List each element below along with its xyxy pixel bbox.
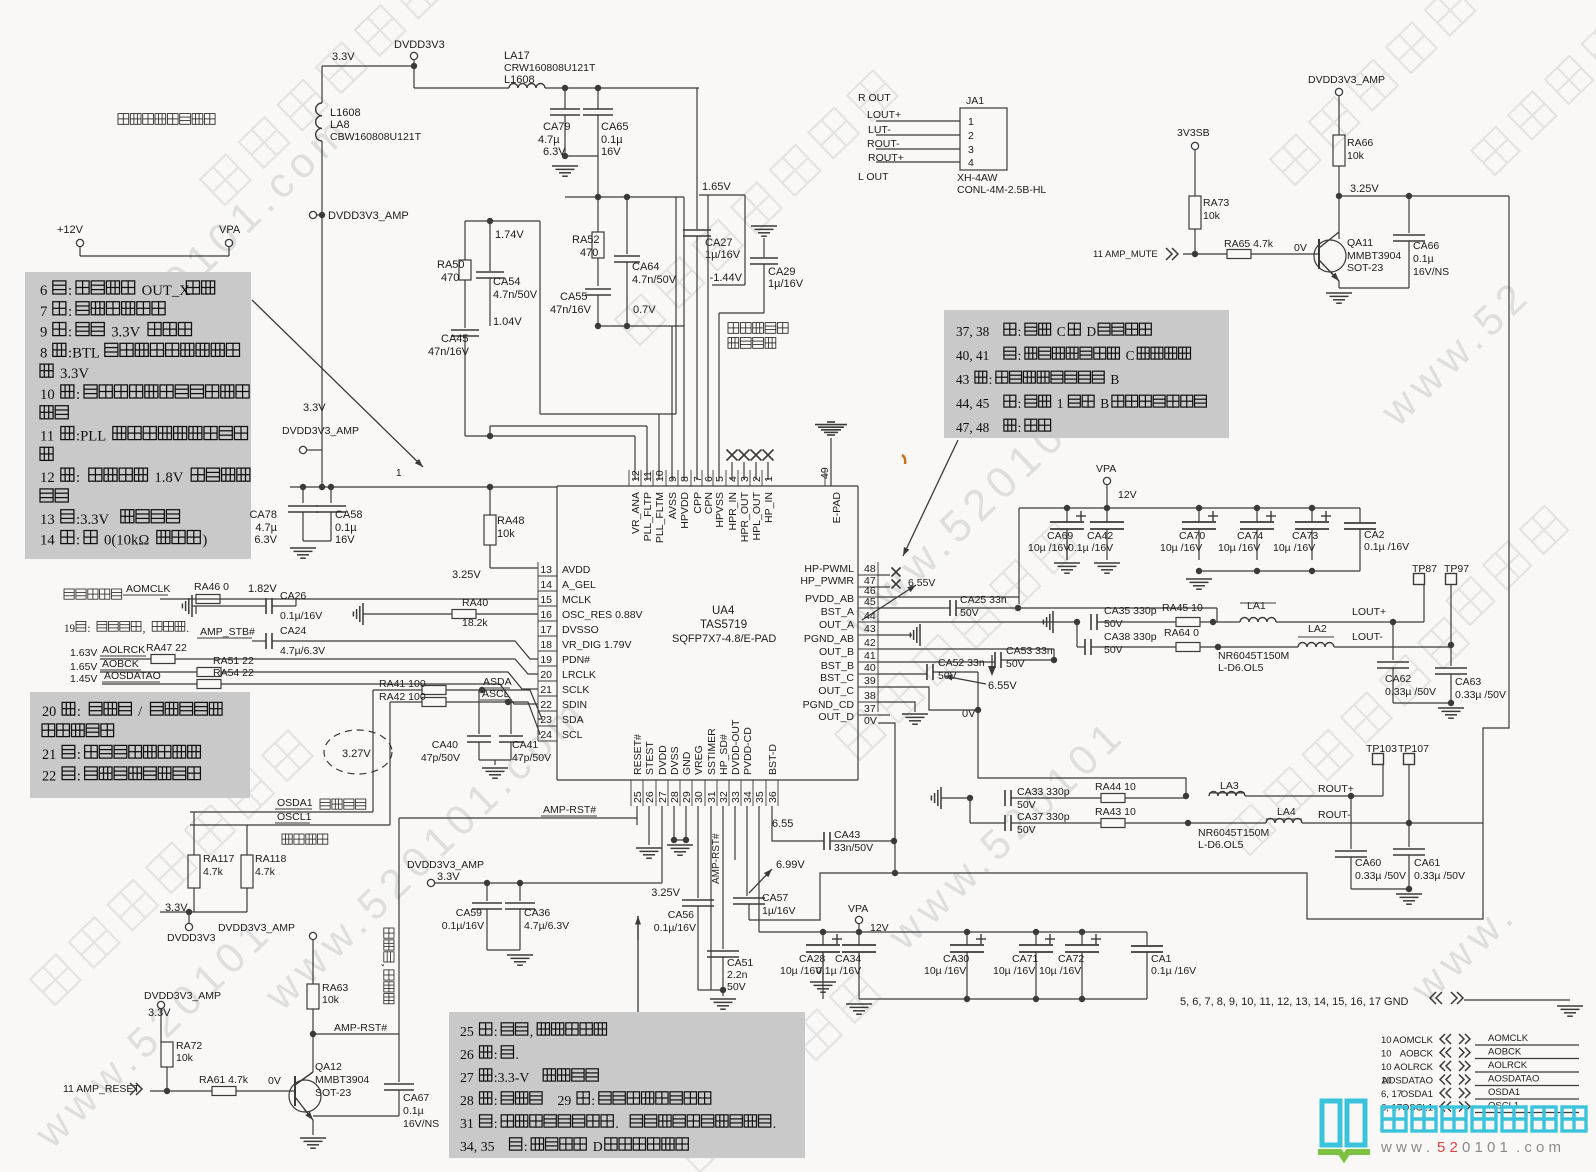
svg-text:AOBCK: AOBCK <box>1488 1047 1522 1058</box>
svg-text:10: 10 <box>654 470 666 482</box>
svg-text:31: 31 <box>706 791 718 803</box>
svg-text:CA78: CA78 <box>249 509 277 521</box>
svg-text:16V/NS: 16V/NS <box>403 1118 439 1130</box>
svg-text:27: 27 <box>657 791 669 803</box>
svg-text:DVDD: DVDD <box>657 745 669 775</box>
svg-text:RA52: RA52 <box>572 234 600 246</box>
svg-text:41: 41 <box>864 650 876 662</box>
svg-text:1: 1 <box>763 476 775 482</box>
svg-text:CA70: CA70 <box>1179 530 1205 542</box>
svg-text:6.99V: 6.99V <box>776 859 805 871</box>
svg-text:CA26: CA26 <box>280 590 306 602</box>
svg-text:1.63V: 1.63V <box>70 647 97 659</box>
svg-text:CBW160808U121T: CBW160808U121T <box>330 131 422 143</box>
svg-text:AVSS: AVSS <box>667 492 679 519</box>
svg-text:CA69: CA69 <box>1047 530 1073 542</box>
svg-text:10µ /16V: 10µ /16V <box>1218 542 1260 554</box>
svg-text:0V: 0V <box>864 715 877 727</box>
svg-text:ASDA: ASDA <box>483 676 512 688</box>
svg-text:13: 13 <box>40 512 55 528</box>
svg-text:4.7k: 4.7k <box>203 866 224 878</box>
svg-text:LRCLK: LRCLK <box>562 669 596 681</box>
svg-text:CA67: CA67 <box>403 1092 429 1104</box>
svg-text:6.3V: 6.3V <box>254 534 277 546</box>
svg-text:42: 42 <box>864 637 876 649</box>
svg-text:16V: 16V <box>601 146 621 158</box>
svg-text:AOSDATAO: AOSDATAO <box>104 670 161 682</box>
svg-text:6.55V: 6.55V <box>988 680 1017 692</box>
svg-text:0 1 0 1: 0 1 0 1 <box>1462 1139 1508 1156</box>
svg-text:CA45: CA45 <box>441 333 469 345</box>
svg-text:10: 10 <box>1381 1049 1392 1060</box>
svg-text:.: . <box>186 623 189 635</box>
svg-text:HPR_IN: HPR_IN <box>727 492 739 531</box>
svg-text:PLL_FLTM: PLL_FLTM <box>654 492 666 543</box>
svg-text:HP_IN: HP_IN <box>763 492 775 523</box>
svg-text:16: 16 <box>540 609 552 621</box>
svg-text:0.1µ /16V: 0.1µ /16V <box>1151 965 1196 977</box>
svg-text:ASCL: ASCL <box>482 688 510 700</box>
svg-text:TP87: TP87 <box>1412 563 1437 575</box>
svg-text:SQFP7X7-4.8/E-PAD: SQFP7X7-4.8/E-PAD <box>672 633 776 645</box>
svg-text:CA35 330p: CA35 330p <box>1104 605 1157 617</box>
svg-text:VR_DIG 1.79V: VR_DIG 1.79V <box>562 639 631 651</box>
svg-text:4.7µ: 4.7µ <box>538 134 560 146</box>
svg-text:LA8: LA8 <box>330 119 350 131</box>
svg-text:12: 12 <box>40 470 55 486</box>
svg-text:10µ /16V: 10µ /16V <box>1160 542 1202 554</box>
svg-text:0.1µ/16V: 0.1µ/16V <box>654 922 696 934</box>
svg-text:STEST: STEST <box>644 741 656 775</box>
svg-text:CA66: CA66 <box>1413 240 1439 252</box>
svg-text:B: B <box>1100 396 1109 411</box>
svg-text:DVDD3V3: DVDD3V3 <box>394 39 445 51</box>
svg-text:25: 25 <box>460 1024 474 1039</box>
svg-text:AMP-RST#: AMP-RST# <box>334 1022 387 1034</box>
svg-text:.: . <box>615 1116 618 1131</box>
svg-text::: : <box>77 704 81 720</box>
svg-text:36: 36 <box>767 791 779 803</box>
svg-text:CA56: CA56 <box>668 909 694 921</box>
svg-text::3.3V: :3.3V <box>76 512 109 528</box>
svg-text:VREG: VREG <box>693 745 705 775</box>
svg-text:50V: 50V <box>727 981 746 993</box>
svg-text:DVDD3V3_AMP: DVDD3V3_AMP <box>282 425 359 437</box>
svg-text:RA46 0: RA46 0 <box>194 581 229 593</box>
svg-text:3.3V: 3.3V <box>303 402 326 414</box>
svg-text:4.7n/50V: 4.7n/50V <box>493 289 538 301</box>
svg-text:31: 31 <box>460 1116 474 1131</box>
svg-text:LA4: LA4 <box>1277 806 1296 818</box>
svg-text:14: 14 <box>40 533 55 549</box>
svg-text:5 2: 5 2 <box>1437 1139 1458 1156</box>
svg-text:CA52 33n: CA52 33n <box>938 657 985 669</box>
svg-text:DVDD3V3: DVDD3V3 <box>167 932 216 944</box>
svg-text:3V3SB: 3V3SB <box>1177 127 1210 139</box>
svg-text:35: 35 <box>754 791 766 803</box>
svg-text:3: 3 <box>968 144 974 156</box>
svg-text:HPVSS: HPVSS <box>714 492 726 528</box>
svg-text:OUT_X: OUT_X <box>142 283 191 299</box>
svg-text:OUT_D: OUT_D <box>818 711 854 723</box>
svg-text:CA79: CA79 <box>543 121 571 133</box>
svg-text:13: 13 <box>540 564 552 576</box>
svg-text:CONL-4M-2.5B-HL: CONL-4M-2.5B-HL <box>957 184 1046 196</box>
svg-text:10µ /16V: 10µ /16V <box>1273 542 1315 554</box>
svg-text:CA58: CA58 <box>335 509 363 521</box>
svg-text:RA47 22: RA47 22 <box>146 642 187 654</box>
svg-text:3: 3 <box>739 476 751 482</box>
svg-text:10: 10 <box>1381 1035 1392 1046</box>
svg-text:47, 48: 47, 48 <box>956 420 990 435</box>
svg-text:5: 5 <box>714 476 726 482</box>
svg-text:CA34: CA34 <box>835 953 861 965</box>
svg-text:AOMCLK: AOMCLK <box>1488 1033 1529 1044</box>
svg-text::3.3-V: :3.3-V <box>494 1070 530 1085</box>
svg-text:6.55: 6.55 <box>772 818 793 830</box>
svg-text:CA25 33n: CA25 33n <box>960 594 1007 606</box>
svg-text:11: 11 <box>40 429 54 445</box>
svg-text:11: 11 <box>642 471 654 482</box>
svg-text:50V: 50V <box>1017 824 1036 836</box>
svg-text:MCLK: MCLK <box>562 594 591 606</box>
svg-text:3.25V: 3.25V <box>651 887 680 899</box>
svg-text:CA74: CA74 <box>1237 530 1263 542</box>
svg-text:32: 32 <box>718 791 730 803</box>
svg-text:47p/50V: 47p/50V <box>421 752 460 764</box>
svg-text:21: 21 <box>540 684 552 696</box>
svg-text:RA117: RA117 <box>203 853 234 865</box>
svg-text:0.7V: 0.7V <box>633 304 656 316</box>
svg-text:1.82V: 1.82V <box>248 583 277 595</box>
svg-text:43: 43 <box>864 623 876 635</box>
svg-text:VPA: VPA <box>219 224 241 236</box>
svg-text:RA65 4.7k: RA65 4.7k <box>1224 238 1274 250</box>
svg-text:0.1µ /16V: 0.1µ /16V <box>1364 541 1409 553</box>
svg-text:6.55V: 6.55V <box>908 577 935 589</box>
svg-text:10k: 10k <box>322 994 340 1006</box>
svg-text:12: 12 <box>630 470 642 482</box>
svg-text:39: 39 <box>864 675 876 687</box>
svg-text:44, 45: 44, 45 <box>956 396 990 411</box>
svg-text:4.7k: 4.7k <box>255 866 276 878</box>
svg-text:LA3: LA3 <box>1220 780 1239 792</box>
svg-text::: : <box>1018 324 1022 339</box>
svg-text::: : <box>87 623 90 635</box>
svg-text:L-D6.OL5: L-D6.OL5 <box>1198 839 1244 851</box>
svg-text:1.65V: 1.65V <box>70 661 97 673</box>
svg-text:HP-PWML: HP-PWML <box>804 563 854 575</box>
svg-text:AOSDATAO: AOSDATAO <box>1488 1074 1539 1085</box>
svg-text:47p/50V: 47p/50V <box>512 752 551 764</box>
svg-text:CA64: CA64 <box>632 261 660 273</box>
svg-text:6.3V: 6.3V <box>543 146 566 158</box>
svg-text:20: 20 <box>540 669 552 681</box>
svg-text::: : <box>494 1116 498 1131</box>
svg-text:): ) <box>202 533 207 549</box>
svg-text:TP103: TP103 <box>1366 743 1397 755</box>
svg-text:26: 26 <box>460 1047 474 1062</box>
svg-text:9: 9 <box>667 476 679 482</box>
svg-text:16V/NS: 16V/NS <box>1413 266 1449 278</box>
svg-text:ROUT+: ROUT+ <box>1318 783 1354 795</box>
svg-text:28: 28 <box>460 1093 474 1108</box>
svg-text:0.1µ /16V: 0.1µ /16V <box>1068 542 1113 554</box>
svg-text:/: / <box>138 704 142 720</box>
svg-text:34: 34 <box>742 791 754 803</box>
svg-text:ROUT+: ROUT+ <box>868 152 904 164</box>
svg-text:SCLK: SCLK <box>562 684 589 696</box>
svg-text:3.3V: 3.3V <box>332 51 355 63</box>
svg-text:LOUT-: LOUT- <box>1352 631 1383 643</box>
svg-text::: : <box>68 283 72 299</box>
svg-text:AOLRCK: AOLRCK <box>1488 1060 1528 1071</box>
svg-text:L OUT: L OUT <box>858 171 889 183</box>
svg-text:OSDA1: OSDA1 <box>1488 1087 1520 1098</box>
svg-text:CA72: CA72 <box>1058 953 1084 965</box>
svg-text:24: 24 <box>540 729 552 741</box>
svg-text:15: 15 <box>540 594 552 606</box>
svg-text::PLL: :PLL <box>76 429 106 445</box>
svg-text:,: , <box>143 623 146 635</box>
svg-text:50V: 50V <box>1104 618 1123 630</box>
svg-text:.: . <box>516 1047 519 1062</box>
svg-text:DVDD3V3_AMP: DVDD3V3_AMP <box>328 210 409 222</box>
svg-text:RA73: RA73 <box>1203 197 1229 209</box>
svg-text:CA71: CA71 <box>1012 953 1038 965</box>
svg-text:44: 44 <box>864 610 876 622</box>
svg-text:10µ /16V: 10µ /16V <box>1028 542 1070 554</box>
svg-text:0.33µ /50V: 0.33µ /50V <box>1385 686 1436 698</box>
svg-text:20: 20 <box>42 704 56 720</box>
svg-text:AOLRCK: AOLRCK <box>1394 1062 1434 1073</box>
svg-text:RA48: RA48 <box>497 515 525 527</box>
svg-text:SOT-23: SOT-23 <box>1347 262 1383 274</box>
svg-text:HP_SD#: HP_SD# <box>718 734 730 775</box>
svg-text:RA118: RA118 <box>255 853 286 865</box>
svg-text:CA24: CA24 <box>280 625 306 637</box>
svg-text:TAS5719: TAS5719 <box>700 619 747 631</box>
svg-text:18: 18 <box>540 639 552 651</box>
svg-text::: : <box>76 387 80 403</box>
svg-text:RA42 100: RA42 100 <box>379 691 426 703</box>
svg-text:C: C <box>1126 348 1135 363</box>
svg-text::: : <box>1018 420 1022 435</box>
svg-text:10k: 10k <box>1347 150 1365 162</box>
svg-text:OSC_RES 0.88V: OSC_RES 0.88V <box>562 609 643 621</box>
svg-text:HPR_OUT: HPR_OUT <box>739 491 751 542</box>
svg-text:6, 17: 6, 17 <box>1381 1089 1402 1100</box>
svg-text:JA1: JA1 <box>966 95 984 107</box>
svg-text::: : <box>494 1024 498 1039</box>
svg-text:11 AMP_RESET: 11 AMP_RESET <box>63 1083 140 1095</box>
svg-text::BTL: :BTL <box>68 345 100 361</box>
svg-text:5, 6, 7, 8, 9, 10, 11, 12, 13,: 5, 6, 7, 8, 9, 10, 11, 12, 13, 14, 15, 1… <box>1180 996 1409 1008</box>
svg-text:NR6045T150M: NR6045T150M <box>1218 650 1289 662</box>
svg-text:AMP-RST#: AMP-RST# <box>711 833 722 884</box>
svg-text:DVSSO: DVSSO <box>562 624 599 636</box>
svg-text:CA42: CA42 <box>1087 530 1113 542</box>
svg-text:11 AMP_MUTE: 11 AMP_MUTE <box>1093 249 1158 260</box>
svg-text:.: . <box>773 1116 776 1131</box>
svg-text:CA41: CA41 <box>512 739 538 751</box>
svg-text:34, 35: 34, 35 <box>460 1139 495 1154</box>
svg-text:PGND_CD: PGND_CD <box>803 699 855 711</box>
svg-text:,: , <box>380 964 392 967</box>
svg-text:LA17: LA17 <box>504 50 530 62</box>
svg-text:TP97: TP97 <box>1444 563 1469 575</box>
svg-text:VPA: VPA <box>848 903 868 915</box>
svg-text:B: B <box>1110 372 1119 387</box>
svg-text::: : <box>591 1093 595 1108</box>
svg-text:AOBCK: AOBCK <box>1400 1049 1434 1060</box>
svg-text::: : <box>76 533 80 549</box>
svg-text:17: 17 <box>540 624 552 636</box>
svg-text:CA53 33n: CA53 33n <box>1006 645 1053 657</box>
svg-text:PVDD-CD: PVDD-CD <box>742 727 754 775</box>
svg-text:50V: 50V <box>1017 799 1036 811</box>
svg-text:470: 470 <box>441 272 459 284</box>
svg-text:RA66: RA66 <box>1347 137 1373 149</box>
svg-text:0V: 0V <box>268 1075 281 1087</box>
svg-text:C: C <box>1057 324 1066 339</box>
svg-text:RA50: RA50 <box>437 259 465 271</box>
svg-text:BST-D: BST-D <box>767 744 779 775</box>
svg-text:CA62: CA62 <box>1385 673 1411 685</box>
svg-text:RA40: RA40 <box>462 597 488 609</box>
svg-text:CA30: CA30 <box>943 953 969 965</box>
svg-text:3.25V: 3.25V <box>452 569 481 581</box>
svg-text:45: 45 <box>864 596 876 608</box>
svg-text:9: 9 <box>40 325 47 341</box>
svg-text:PDN#: PDN# <box>562 654 590 666</box>
svg-text:-1.44V: -1.44V <box>710 272 743 284</box>
svg-text:DVDD3V3_AMP: DVDD3V3_AMP <box>1308 74 1385 86</box>
svg-text:RA63: RA63 <box>322 982 348 994</box>
svg-text:37: 37 <box>864 703 876 715</box>
svg-text:0.1µ/16V: 0.1µ/16V <box>280 610 322 622</box>
svg-text:0.33µ /50V: 0.33µ /50V <box>1455 689 1506 701</box>
svg-text:XH-4AW: XH-4AW <box>957 172 998 184</box>
svg-text:D: D <box>593 1139 603 1154</box>
svg-text:RA64 0: RA64 0 <box>1164 627 1199 639</box>
svg-text:33: 33 <box>730 791 742 803</box>
svg-text::: : <box>77 747 81 763</box>
svg-text:0(10kΩ: 0(10kΩ <box>104 533 149 549</box>
svg-text:CA51: CA51 <box>727 957 753 969</box>
svg-text:CA29: CA29 <box>768 266 796 278</box>
svg-text:RA44 10: RA44 10 <box>1095 781 1136 793</box>
svg-text:w w w .: w w w . <box>1380 1139 1430 1156</box>
svg-text:OUT_B: OUT_B <box>819 646 854 658</box>
svg-text:28: 28 <box>669 791 681 803</box>
svg-text::: : <box>77 769 81 785</box>
svg-text:AOLRCK: AOLRCK <box>102 644 145 656</box>
svg-text:48: 48 <box>864 563 876 575</box>
svg-text:CA54: CA54 <box>493 276 521 288</box>
svg-text:TP107: TP107 <box>1398 743 1429 755</box>
svg-text:ROUT-: ROUT- <box>1318 809 1351 821</box>
svg-text:40: 40 <box>864 662 876 674</box>
svg-text:AOBCK: AOBCK <box>102 658 139 670</box>
svg-text:SDA: SDA <box>562 714 584 726</box>
svg-text:CA38 330p: CA38 330p <box>1104 631 1157 643</box>
svg-text:4.7µ/6.3V: 4.7µ/6.3V <box>524 920 569 932</box>
svg-text::: : <box>76 470 80 486</box>
svg-text:4.7µ: 4.7µ <box>255 522 277 534</box>
svg-text:DVDD3V3_AMP: DVDD3V3_AMP <box>218 922 295 934</box>
svg-text:CA61: CA61 <box>1414 857 1440 869</box>
svg-text:AVDD: AVDD <box>562 564 591 576</box>
svg-text:43: 43 <box>956 372 970 387</box>
svg-text:10µ /16V: 10µ /16V <box>993 965 1035 977</box>
svg-text:CA37 330p: CA37 330p <box>1017 811 1070 823</box>
svg-text:OSDA1: OSDA1 <box>1401 1089 1433 1100</box>
svg-text:0.1µ /16V: 0.1µ /16V <box>816 965 861 977</box>
svg-text:50V: 50V <box>1006 658 1025 670</box>
svg-text:23: 23 <box>540 714 552 726</box>
svg-text:QA12: QA12 <box>315 1061 342 1073</box>
svg-text::: : <box>1018 348 1022 363</box>
svg-text:26: 26 <box>644 791 656 803</box>
svg-text:10k: 10k <box>497 528 515 540</box>
svg-text:AMP_STB#: AMP_STB# <box>200 626 255 638</box>
svg-text:CA73: CA73 <box>1292 530 1318 542</box>
svg-text::: : <box>1018 396 1022 411</box>
svg-text::: : <box>68 304 72 320</box>
svg-text:LOUT+: LOUT+ <box>1352 606 1386 618</box>
svg-text:CA55: CA55 <box>560 291 588 303</box>
svg-text:8: 8 <box>40 345 47 361</box>
svg-text:1µ/16V: 1µ/16V <box>762 905 796 917</box>
svg-text:UA4: UA4 <box>712 605 735 617</box>
svg-text:6: 6 <box>40 283 47 299</box>
svg-text:1.8V: 1.8V <box>154 470 183 486</box>
svg-text:SOT-23: SOT-23 <box>315 1087 351 1099</box>
svg-text:38: 38 <box>864 690 876 702</box>
svg-text:47n/16V: 47n/16V <box>550 304 592 316</box>
svg-text:1.45V: 1.45V <box>70 673 97 685</box>
svg-text:8: 8 <box>679 476 691 482</box>
svg-text:AMP-RST#: AMP-RST# <box>543 804 596 816</box>
svg-text:21: 21 <box>42 747 56 763</box>
svg-text:30: 30 <box>693 791 705 803</box>
svg-text:CA36: CA36 <box>524 907 550 919</box>
svg-text:RA54 22: RA54 22 <box>213 667 254 679</box>
svg-text:0V: 0V <box>1294 242 1307 254</box>
svg-text:10: 10 <box>40 387 55 403</box>
svg-text:0.33µ /50V: 0.33µ /50V <box>1355 870 1406 882</box>
svg-text:CA1: CA1 <box>1151 953 1172 965</box>
svg-text:10k: 10k <box>1203 210 1221 222</box>
svg-text:SCL: SCL <box>562 729 583 741</box>
svg-text:47n/16V: 47n/16V <box>428 346 470 358</box>
svg-text:33n/50V: 33n/50V <box>834 842 873 854</box>
svg-text:4.7µ/6.3V: 4.7µ/6.3V <box>280 645 325 657</box>
svg-text:29: 29 <box>558 1093 572 1108</box>
svg-text:0.1µ: 0.1µ <box>335 522 357 534</box>
svg-text:CA60: CA60 <box>1355 857 1381 869</box>
svg-text:25: 25 <box>632 791 644 803</box>
svg-text:,: , <box>530 1024 533 1039</box>
svg-text:1: 1 <box>1057 396 1064 411</box>
svg-text:PLL_FLTP: PLL_FLTP <box>642 492 654 541</box>
svg-text:CA57: CA57 <box>762 892 788 904</box>
svg-text:3.3V: 3.3V <box>60 366 89 382</box>
svg-text:RA43 10: RA43 10 <box>1095 806 1136 818</box>
svg-text:LA1: LA1 <box>1247 600 1266 612</box>
svg-text:7: 7 <box>40 304 47 320</box>
